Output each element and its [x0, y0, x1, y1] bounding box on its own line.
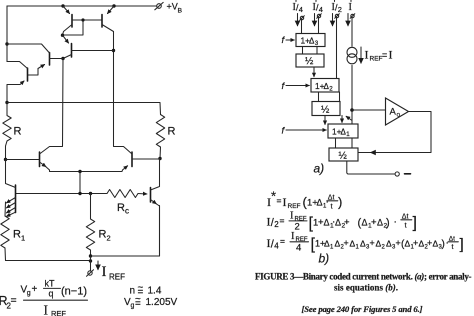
svg-text:1: 1	[346, 131, 350, 138]
arrow line 3	[332, 14, 334, 26]
arrow f3	[286, 129, 326, 131]
stub line 2	[315, 0, 317, 2]
block half3	[329, 148, 358, 162]
block half2	[312, 102, 340, 116]
svg-text:Δ: Δ	[335, 218, 341, 228]
node top rail Q1	[61, 4, 64, 7]
wire Rc to Q9 base	[138, 193, 147, 196]
arrow half1 to D2	[313, 67, 315, 77]
svg-text:o: o	[397, 112, 401, 119]
svg-text:REF: REF	[51, 309, 66, 316]
svg-text:Δ: Δ	[377, 218, 383, 228]
svg-text:I: I	[44, 303, 49, 316]
connector D2 to half2 right	[339, 92, 341, 102]
LEFT-CIRCUIT	[1, 2, 183, 282]
svg-text:c: c	[125, 207, 129, 216]
svg-text:2: 2	[107, 234, 111, 243]
svg-text:1: 1	[356, 245, 360, 251]
svg-text:4: 4	[274, 242, 279, 251]
svg-text:3: 3	[315, 40, 319, 47]
svg-text:1.4: 1.4	[148, 286, 162, 297]
label +VB	[167, 2, 183, 15]
wire base bus	[16, 193, 108, 195]
node C base left diff	[4, 158, 7, 161]
svg-text:2: 2	[329, 86, 333, 93]
svg-text:+: +	[396, 238, 401, 248]
svg-text:FIGURE 3—Binary coded current: FIGURE 3—Binary coded current network. (…	[255, 272, 472, 282]
label minus	[405, 173, 411, 175]
wire amp input	[352, 109, 386, 111]
label I/2	[332, 2, 342, 14]
resistor R center	[156, 115, 164, 159]
node diff tail	[78, 170, 81, 173]
block 1+D3	[296, 34, 325, 48]
transistor Q4 (PNP)	[7, 44, 63, 75]
wire node B down to diff collector	[62, 59, 65, 147]
svg-text:+: +	[344, 217, 350, 228]
wire current line 2	[318, 18, 320, 34]
arrow half2 to D1 left	[324, 116, 326, 125]
connector D3 to half1 left	[302, 47, 304, 55]
label I/4 first	[293, 2, 303, 14]
svg-text:=: =	[11, 295, 17, 307]
svg-text:a): a)	[314, 162, 325, 176]
equation b3 I quarter	[267, 231, 464, 254]
transistor Q7 (right of diff pair)	[80, 147, 160, 172]
terminal line 3	[335, 14, 340, 19]
transistor Q8 (multi-emitter)	[5, 160, 16, 217]
arrow source	[360, 47, 362, 63]
arrow Istar branch	[346, 116, 352, 120]
svg-text:g: g	[27, 290, 31, 297]
text Vg approx 1.205V	[124, 294, 178, 310]
node top rail Q2	[112, 4, 115, 7]
svg-text:I: I	[102, 264, 107, 280]
transistor Q5 (PNP)	[7, 62, 28, 103]
wire terminal stub	[90, 256, 92, 271]
svg-text:REF: REF	[288, 203, 301, 210]
svg-text:1: 1	[330, 245, 334, 251]
arrow half2 to D1 right	[341, 116, 343, 123]
svg-text:Δ: Δ	[324, 218, 330, 228]
node rail-left junction	[5, 42, 8, 45]
svg-text:1.205: 1.205	[146, 297, 171, 308]
svg-text:2: 2	[382, 245, 386, 251]
svg-text:t: t	[452, 244, 454, 251]
wire top supply rail	[7, 5, 157, 7]
node D base right diff	[158, 157, 161, 160]
svg-text:I: I	[283, 195, 287, 209]
svg-text:I: I	[389, 48, 393, 62]
connector D3 to half1 right	[316, 47, 318, 55]
svg-text:R: R	[13, 229, 21, 241]
svg-text:I: I	[349, 2, 352, 13]
transistor Q3 (PNP cascode)	[63, 35, 114, 58]
wire left rail	[6, 6, 8, 62]
wire output bottom	[347, 161, 395, 174]
wire Q2 collector down	[113, 32, 115, 147]
node amp input	[350, 108, 354, 112]
wire line4 between D1 and half3	[351, 138, 353, 148]
svg-text:=: =	[280, 236, 285, 246]
svg-text:R: R	[99, 229, 107, 241]
equation R2 formula	[0, 279, 88, 316]
block 1+D1	[328, 124, 358, 138]
wire current line 1	[301, 20, 303, 34]
transistor Q9 (output)	[151, 159, 160, 257]
label IREF equals I	[365, 48, 393, 63]
node cascode base	[112, 49, 115, 52]
svg-text:REF: REF	[109, 273, 125, 282]
RIGHT-DIAGRAM	[282, 0, 432, 176]
svg-text:*: *	[271, 189, 276, 204]
svg-text:f: f	[282, 81, 286, 92]
connector D1 to half3 left	[335, 138, 337, 148]
svg-text:·: ·	[394, 217, 397, 228]
svg-text:]: ]	[460, 236, 464, 253]
svg-text:REF: REF	[370, 56, 383, 63]
resistor R left	[3, 103, 11, 160]
svg-text:(n−1): (n−1)	[61, 286, 87, 298]
svg-text:Δ: Δ	[362, 218, 368, 228]
svg-text:t: t	[405, 221, 408, 230]
svg-text:q: q	[49, 289, 54, 299]
arrow IREF	[97, 261, 99, 270]
svg-text:I: I	[290, 211, 294, 222]
svg-text:R: R	[168, 126, 176, 138]
svg-text:1: 1	[21, 234, 25, 243]
terminal line 2	[317, 14, 322, 19]
wire bottom rail left	[6, 260, 91, 262]
text n approx 1.4	[130, 283, 162, 299]
label Rc	[117, 202, 129, 216]
svg-text:+V: +V	[167, 2, 178, 12]
current source IREF	[347, 47, 357, 64]
svg-text:g: g	[131, 303, 135, 310]
label R1	[13, 229, 25, 243]
node R2 bottom upper	[89, 254, 92, 257]
wire feedback	[358, 112, 431, 153]
label R2	[99, 229, 111, 243]
svg-text:2: 2	[338, 5, 342, 14]
transistor Q6 (left of diff pair)	[6, 147, 81, 172]
svg-text:B: B	[178, 8, 183, 15]
arrow f1	[286, 39, 294, 41]
svg-text:Δ: Δ	[317, 198, 323, 208]
terminal +VB	[155, 2, 163, 9]
terminal line 1	[300, 16, 305, 21]
wire current line 3	[336, 18, 338, 79]
svg-text:t: t	[331, 202, 334, 211]
svg-text:A: A	[390, 107, 397, 118]
node R2 top	[89, 192, 92, 195]
svg-text:=: =	[277, 196, 282, 206]
stub line 4	[350, 0, 352, 2]
svg-text:b): b)	[319, 252, 330, 266]
TEXT-BLOCKS	[0, 189, 472, 316]
svg-text:sis equations (b).: sis equations (b).	[334, 283, 398, 293]
svg-text:Δt: Δt	[402, 213, 409, 220]
svg-text:): )	[338, 195, 342, 210]
wire current line 4 upper	[351, 18, 353, 46]
node A collector Q1 / emitter Q3	[61, 34, 64, 37]
svg-text:+: +	[344, 238, 349, 248]
svg-text:+: +	[32, 284, 38, 295]
transistor Q1 (PNP mirror, diode-connected)	[63, 6, 103, 35]
svg-text:): )	[442, 239, 445, 250]
equation b2 I half	[267, 211, 417, 233]
svg-text:I: I	[365, 48, 369, 62]
svg-text:+: +	[427, 238, 432, 248]
block half1	[296, 54, 324, 67]
svg-text:R: R	[117, 202, 125, 214]
arrow f2	[286, 85, 309, 87]
svg-text:]: ]	[413, 215, 417, 232]
svg-text:V: V	[171, 297, 178, 308]
arrow feedback	[371, 152, 378, 154]
resistor R2	[86, 194, 94, 257]
arrow line 4	[347, 14, 349, 26]
svg-text:): )	[386, 217, 390, 229]
svg-text:½: ½	[321, 105, 330, 116]
terminal IREF	[87, 270, 94, 277]
op-amp A0	[386, 98, 409, 125]
stub line 3	[334, 0, 336, 2]
wire line 4 lower	[351, 65, 353, 124]
svg-text:+: +	[370, 238, 375, 248]
wire diff tail down	[79, 172, 81, 194]
arrow line 2	[314, 14, 316, 26]
svg-text:R: R	[14, 126, 22, 138]
svg-text:=: =	[280, 216, 285, 226]
svg-text:f: f	[282, 35, 286, 46]
svg-text:=: =	[135, 299, 141, 310]
arrow line 1	[297, 14, 299, 26]
svg-text:Δt: Δt	[449, 235, 455, 242]
resistor Rc	[107, 190, 138, 198]
svg-text:4: 4	[299, 5, 303, 14]
node Q1 base tie	[81, 18, 84, 21]
svg-text:+: +	[413, 238, 418, 248]
stub line 1	[295, 0, 297, 2]
svg-text:kT: kT	[45, 279, 56, 289]
node tail on bus	[78, 192, 81, 195]
svg-text:4: 4	[296, 243, 301, 254]
svg-text:[See page 240 for Figures 5 an: [See page 240 for Figures 5 and 6.]	[302, 304, 423, 314]
wire bottom rail right to output emitter	[91, 206, 160, 257]
connector D2 to half2 left	[318, 92, 320, 102]
svg-text:f: f	[282, 126, 286, 137]
terminal output	[395, 172, 399, 176]
node R2 bottom lower	[89, 259, 92, 262]
label IREF	[102, 264, 126, 282]
label I/4 second	[313, 2, 323, 14]
svg-text:I: I	[291, 231, 295, 242]
wire mid rail	[7, 103, 161, 115]
svg-text:½: ½	[305, 56, 314, 67]
terminal line 4	[350, 14, 355, 19]
transistor Q2 (PNP mirror output)	[102, 6, 114, 32]
svg-text:=: =	[382, 50, 387, 60]
svg-text:½: ½	[339, 151, 348, 162]
equation b1 Istar	[267, 189, 342, 211]
svg-text:4: 4	[319, 5, 323, 14]
node B Q3 collector / Q4 base	[61, 57, 64, 60]
svg-text:Δt: Δt	[328, 194, 335, 201]
svg-text:2: 2	[295, 222, 300, 233]
resistor R1	[1, 216, 9, 261]
block 1+D2	[311, 79, 339, 93]
node mid rail left	[5, 101, 8, 104]
